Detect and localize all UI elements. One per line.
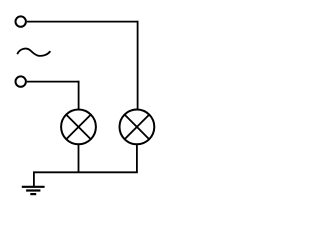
wire mid horizontal from X2 xyxy=(27,81,79,83)
terminal X2 (second input) xyxy=(16,76,26,86)
terminal X1 (top input) xyxy=(16,16,26,26)
wire right vertical down to lamp E2 xyxy=(137,21,139,110)
ground xyxy=(22,171,45,194)
lamp E1 xyxy=(61,110,96,145)
wire vertical down to lamp E1 xyxy=(78,81,80,110)
AC source symbol (sine wave) xyxy=(17,49,50,56)
wire lamp E2 bottom vertical xyxy=(136,144,138,172)
wire top horizontal from X1 to right corner xyxy=(27,21,138,23)
wire lamp E1 bottom vertical xyxy=(78,144,80,172)
wire bottom horizontal to ground xyxy=(34,171,138,173)
lamp E2 xyxy=(119,110,154,145)
